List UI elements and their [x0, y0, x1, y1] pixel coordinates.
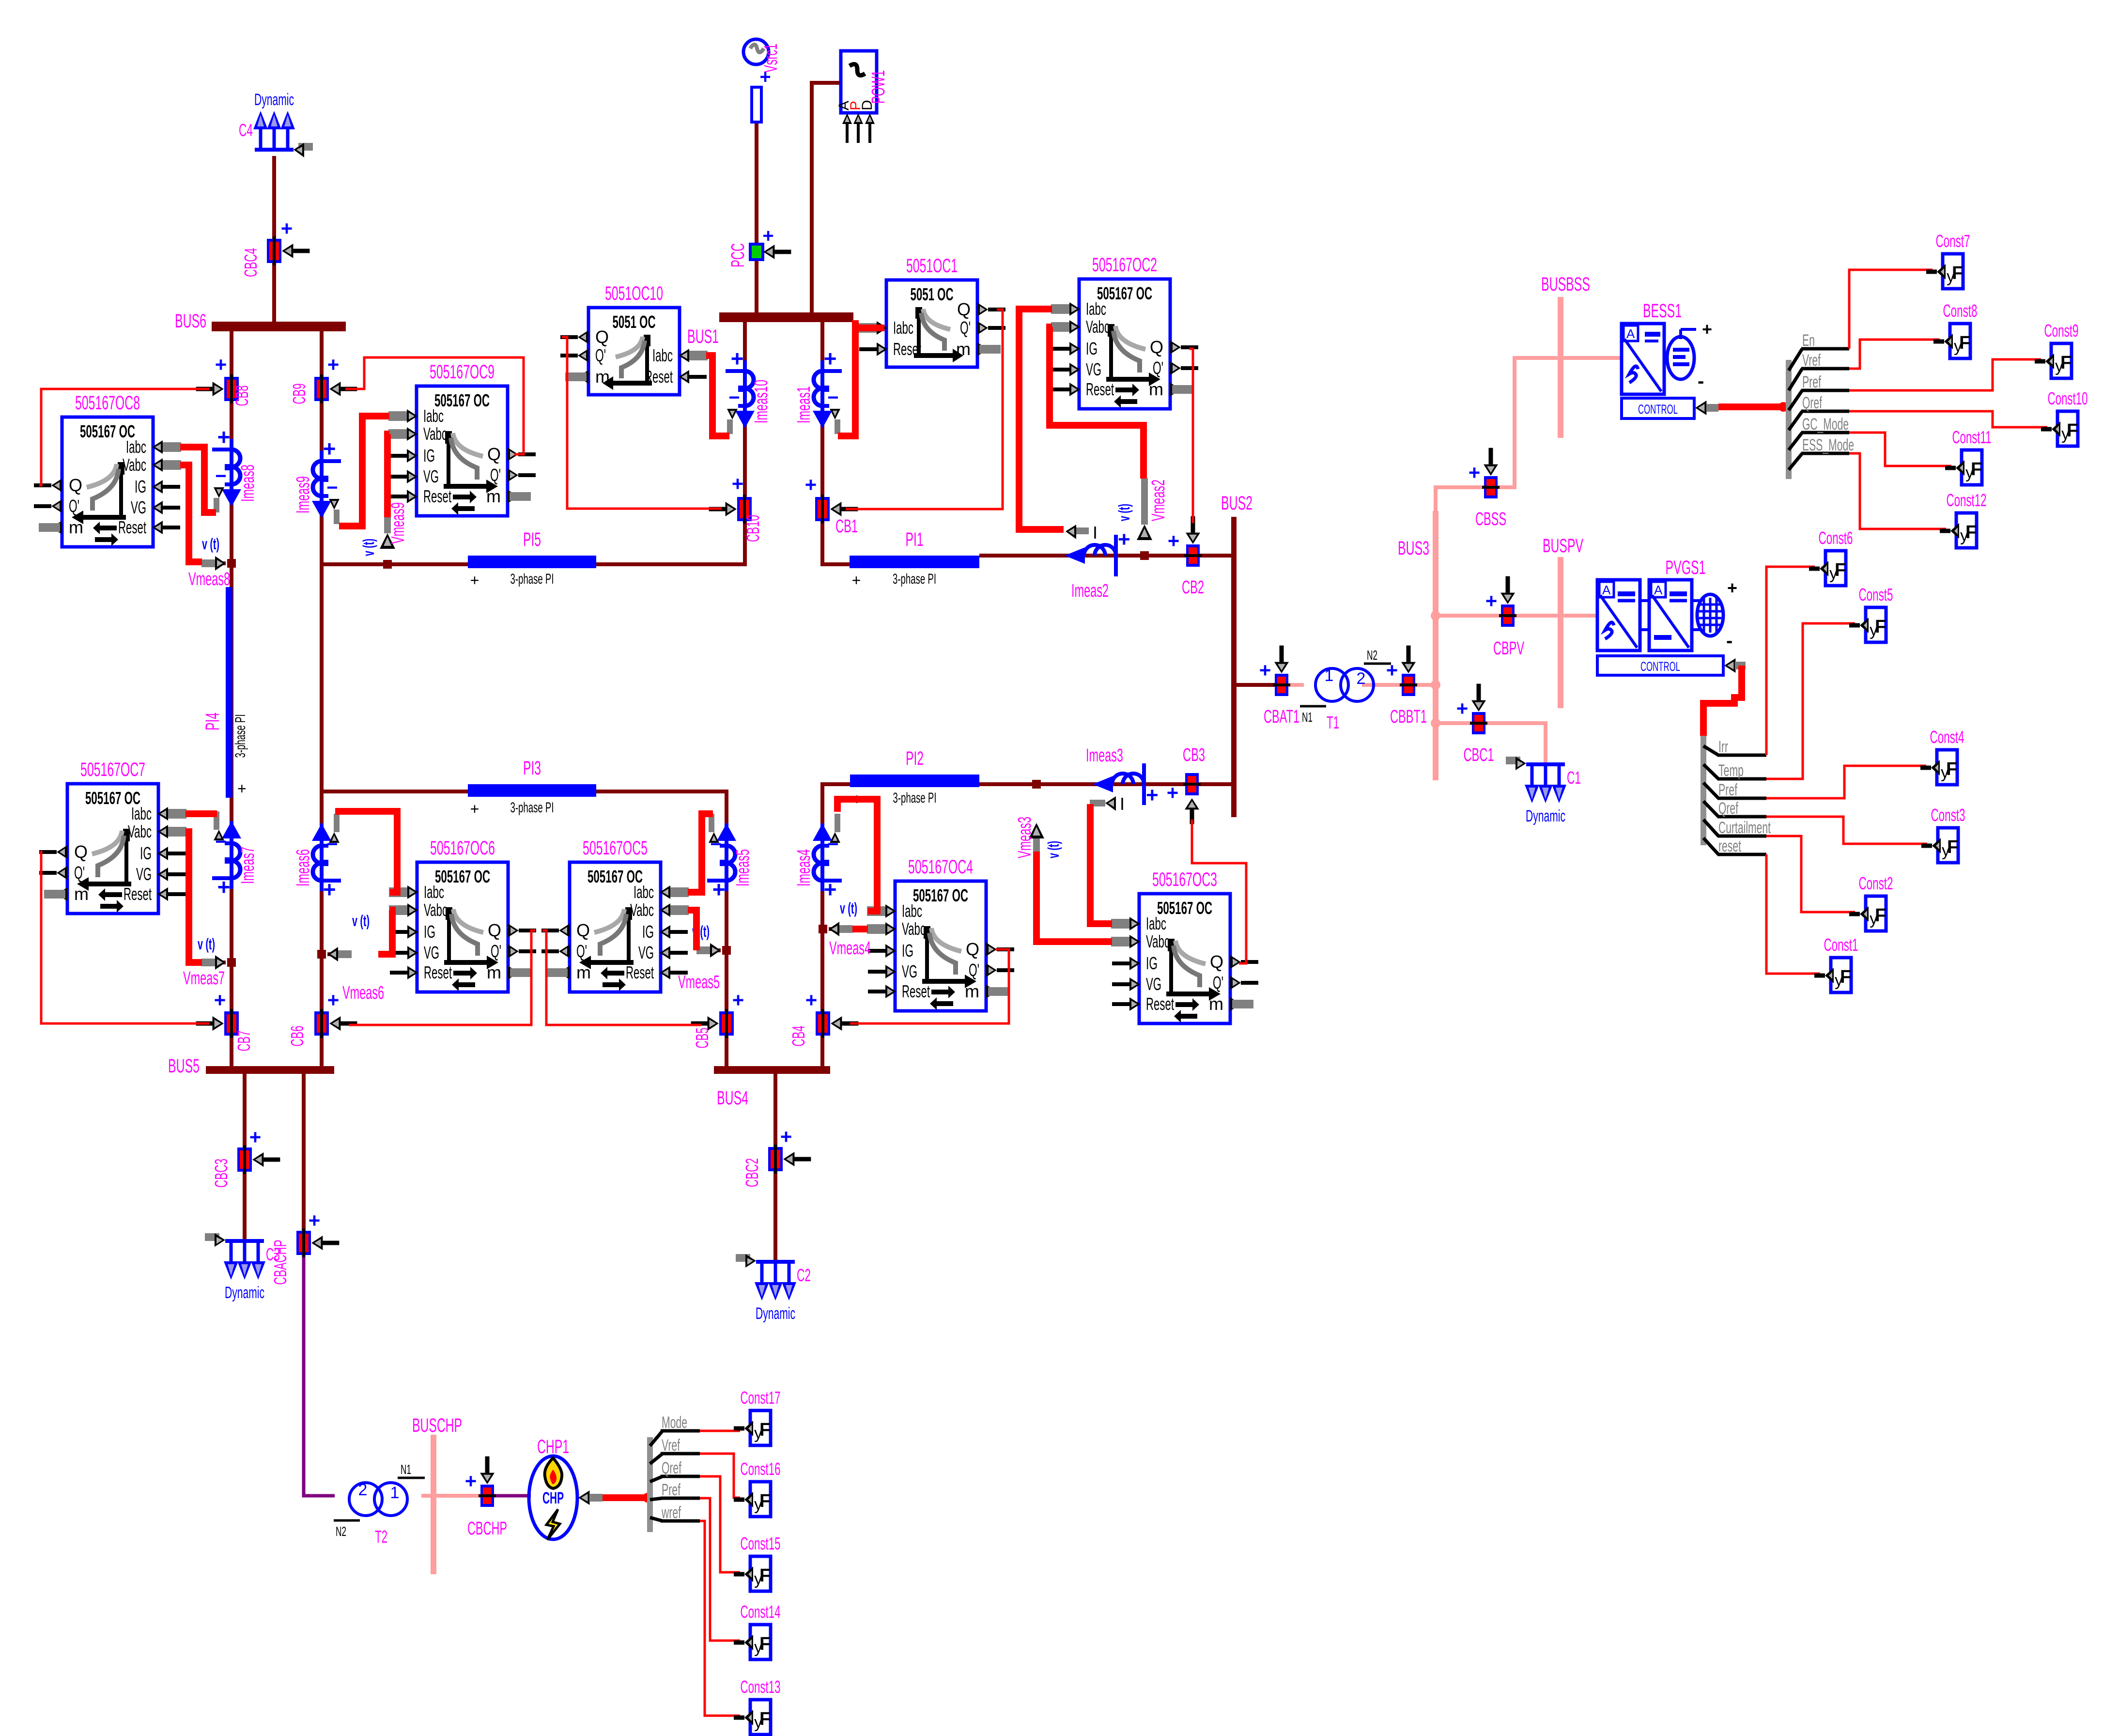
svg-text:Dynamic: Dynamic: [1526, 807, 1565, 825]
svg-text:Imeas1: Imeas1: [794, 386, 814, 423]
breaker CBSS: [1469, 448, 1506, 529]
svg-text:Reset: Reset: [1146, 994, 1174, 1014]
wire En to Const7: [1849, 270, 1933, 349]
bus BUSBSS: [1541, 274, 1590, 438]
svg-text:F: F: [1835, 560, 1846, 580]
overcurrent relay 505167OC7: [39, 759, 186, 914]
wire OC4 Q to CB4: [850, 949, 1009, 1023]
svg-text:CB5: CB5: [692, 1028, 712, 1049]
svg-text:Const6: Const6: [1819, 528, 1853, 548]
constant Const6: [1809, 528, 1853, 586]
svg-text:CBBT1: CBBT1: [1390, 707, 1427, 727]
svg-text:wref: wref: [661, 1503, 681, 1522]
constant Const3: [1921, 805, 1965, 863]
constant Const16: [734, 1459, 781, 1517]
svg-text:Const17: Const17: [741, 1388, 781, 1408]
svg-text:F: F: [759, 1420, 771, 1440]
wire CBAT1 to T1: [1289, 683, 1304, 687]
wire BESS CONTROL to signal fan: [1718, 403, 1786, 410]
svg-text:N1: N1: [1302, 710, 1313, 725]
svg-text:CB7: CB7: [234, 1031, 254, 1052]
svg-text:A: A: [1626, 326, 1635, 341]
bus BUS1: [687, 312, 853, 347]
wire PI1 to BUS2 via Imeas2 Vmeas2 CB2: [979, 554, 1231, 558]
overcurrent relay 505167OC5: [541, 837, 689, 992]
svg-text:v (t): v (t): [202, 535, 219, 553]
svg-text:Reset: Reset: [902, 981, 930, 1001]
constant Const1: [1814, 935, 1858, 992]
svg-text:PI3: PI3: [523, 758, 541, 779]
svg-text:Q: Q: [488, 920, 501, 940]
svg-text:Iabc: Iabc: [634, 882, 654, 902]
wire OC2 Q to CB2: [1189, 349, 1193, 523]
wire OC3 Vabc to Vmeas3: [1036, 852, 1112, 942]
svg-text:Const14: Const14: [741, 1602, 781, 1622]
wire BUS1 to CB1 to PI1: [822, 320, 850, 564]
svg-text:Q': Q': [1213, 973, 1223, 992]
svg-text:CBSS: CBSS: [1475, 509, 1506, 529]
wire Qref to Const10: [1849, 411, 2047, 427]
svg-text:VG: VG: [1086, 359, 1101, 379]
svg-text:F: F: [1875, 617, 1886, 637]
wire Vmeas9 to OC9 Vabc: [387, 434, 389, 517]
svg-text:CB4: CB4: [789, 1026, 808, 1047]
svg-text:C2: C2: [797, 1265, 811, 1285]
wire OC4 Vabc from Vmeas4: [852, 926, 868, 932]
svg-text:CONTROL: CONTROL: [1638, 402, 1678, 417]
breaker CBC1: [1456, 684, 1494, 765]
wire CBCHP to CHP1 (purple): [493, 1494, 531, 1498]
breaker CBPV: [1485, 576, 1525, 659]
svg-text:Reset: Reset: [1086, 379, 1114, 399]
svg-text:CHP1: CHP1: [537, 1436, 569, 1457]
svg-text:BESS1: BESS1: [1643, 300, 1682, 322]
svg-text:IG: IG: [642, 922, 654, 942]
svg-text:3-phase PI: 3-phase PI: [232, 714, 248, 758]
overcurrent relay 505167OC8: [34, 392, 181, 547]
svg-text:v (t): v (t): [198, 935, 215, 953]
breaker CB9: [289, 353, 357, 404]
current measurement Imeas5: [707, 814, 753, 902]
svg-text:-: -: [1698, 371, 1704, 392]
overcurrent relay 505167OC4: [867, 856, 1014, 1011]
svg-text:Iabc: Iabc: [424, 882, 444, 902]
svg-text:CB6: CB6: [287, 1026, 307, 1047]
wire BUS5 to CBC3 to C3 load: [243, 1074, 247, 1241]
svg-text:+: +: [470, 800, 479, 818]
wire PI3 to BUS4 via Imeas5 Vmeas5 CB5: [596, 791, 727, 1068]
CHP generator CHP1: [529, 1436, 603, 1540]
svg-text:PCC: PCC: [728, 243, 748, 267]
svg-text:POW1: POW1: [868, 70, 889, 104]
svg-text:F: F: [1952, 263, 1963, 283]
signal connector PV inputs: [1701, 736, 1771, 855]
breaker CBAT1: [1259, 646, 1299, 727]
svg-text:Iabc: Iabc: [1146, 914, 1166, 933]
wire Imeas10 to OC10 Iabc: [706, 356, 729, 436]
overcurrent relay 505167OC6: [389, 837, 536, 992]
svg-text:v (t): v (t): [840, 899, 857, 917]
svg-text:N2: N2: [336, 1524, 346, 1539]
svg-text:+: +: [327, 353, 340, 376]
svg-text:CBC2: CBC2: [742, 1158, 762, 1187]
svg-text:+: +: [1167, 781, 1179, 804]
wire C4 load to BUS6 via CBC4: [272, 156, 276, 324]
svg-text:Reset: Reset: [118, 517, 146, 537]
svg-text:Q': Q': [576, 941, 587, 961]
svg-text:5051OC1: 5051OC1: [906, 255, 958, 277]
svg-text:Const5: Const5: [1859, 585, 1893, 604]
wire BUSBSS to BESS1: [1563, 356, 1622, 360]
wire Temp to Const5: [1766, 623, 1855, 779]
svg-text:reset: reset: [1718, 837, 1741, 855]
svg-text:Q: Q: [69, 475, 82, 495]
wire OC6 Q to CB6: [349, 930, 535, 1025]
constant Const7: [1926, 231, 1970, 289]
svg-text:+: +: [1118, 527, 1130, 551]
constant Const15: [734, 1534, 781, 1591]
voltage measurement Vmeas7: [183, 935, 236, 989]
svg-text:+: +: [762, 225, 773, 247]
svg-text:Vref: Vref: [1802, 351, 1821, 370]
svg-text:VG: VG: [136, 864, 152, 884]
wire ESS_Mode to Const12: [1849, 453, 1946, 529]
wire Pref to Const14: [700, 1498, 740, 1641]
wire Imeas8 to OC8 Iabc: [180, 447, 216, 512]
wire T1 to CBBT1: [1362, 683, 1402, 687]
wire Mode to Const17: [700, 1430, 740, 1432]
svg-text:+: +: [214, 989, 226, 1011]
svg-text:Vabc: Vabc: [128, 821, 152, 841]
svg-text:CBC1: CBC1: [1464, 745, 1494, 765]
breaker CBC2: [742, 1125, 811, 1187]
svg-text:v (t): v (t): [1115, 504, 1133, 521]
svg-text:PI4: PI4: [202, 713, 223, 730]
svg-text:F: F: [759, 1709, 771, 1729]
wire OC3 Iabc to Imeas3 I pin: [1090, 804, 1112, 924]
svg-text:BUS5: BUS5: [168, 1055, 200, 1077]
overcurrent relay 505167OC3: [1111, 869, 1258, 1023]
svg-text:Const4: Const4: [1930, 727, 1964, 747]
svg-text:CB1: CB1: [835, 516, 858, 537]
wire BUS1 to CB10 to PI5: [596, 320, 745, 564]
constant Const11: [1945, 427, 1992, 485]
svg-text:Const1: Const1: [1824, 935, 1858, 955]
svg-text:F: F: [2067, 420, 2078, 441]
svg-text:Q: Q: [966, 939, 979, 959]
svg-text:Temp: Temp: [1718, 761, 1744, 780]
svg-text:+: +: [281, 217, 293, 240]
svg-text:Dynamic: Dynamic: [756, 1304, 795, 1323]
svg-text:VG: VG: [902, 961, 917, 981]
svg-text:BUS6: BUS6: [175, 310, 206, 332]
constant Const14: [734, 1602, 781, 1659]
svg-text:F: F: [759, 1565, 771, 1586]
svg-text:1: 1: [1325, 666, 1334, 685]
wire BUS3 to CBPV to BUSPV to PVGS1: [1438, 614, 1597, 618]
svg-text:505167OC5: 505167OC5: [583, 837, 648, 859]
PI section PI5: [468, 529, 596, 589]
svg-text:+: +: [323, 436, 336, 461]
breaker CBACHP: [270, 1209, 339, 1285]
wire Vmeas8 to OC8 Vabc: [180, 465, 202, 562]
wire Pref to Const9: [1849, 359, 2041, 390]
svg-text:Vabc: Vabc: [630, 900, 654, 920]
svg-text:Q: Q: [957, 299, 971, 319]
svg-text:505167OC6: 505167OC6: [430, 837, 495, 859]
svg-text:Pref: Pref: [1802, 373, 1821, 391]
PI section PI1: [850, 529, 979, 589]
svg-text:BUS4: BUS4: [717, 1087, 748, 1109]
wire PI2 left to BUS4 via Imeas4 Vmeas4 CB4: [822, 784, 850, 1068]
breaker CB1: [805, 473, 858, 537]
svg-text:CB3: CB3: [1183, 745, 1205, 765]
svg-text:+: +: [1485, 589, 1498, 612]
svg-text:3-phase PI: 3-phase PI: [510, 571, 554, 587]
transformer T2: [334, 1462, 425, 1547]
wire BUS5 to CBACHP: [302, 1074, 306, 1233]
wire CBACHP to T2 (purple): [304, 1253, 335, 1496]
wire wref to Const13: [700, 1521, 740, 1716]
signal connector CHP inputs: [647, 1413, 700, 1532]
wire BUS4 to CBC2 to C2 load: [773, 1074, 777, 1262]
wire Imeas9 to OC9 Iabc: [339, 416, 389, 526]
svg-text:F: F: [1959, 333, 1970, 353]
wire Vsrc1 to BUS1: [755, 121, 758, 314]
svg-text:Imeas6: Imeas6: [293, 849, 313, 886]
svg-text:+: +: [327, 989, 340, 1011]
svg-text:Q': Q': [74, 863, 85, 883]
svg-text:GC_Mode: GC_Mode: [1802, 415, 1849, 434]
wire OC7 Vabc to Vmeas7: [186, 832, 202, 962]
svg-text:+: +: [805, 473, 817, 496]
svg-text:2: 2: [358, 1481, 368, 1499]
svg-text:Q: Q: [487, 444, 501, 464]
svg-text:Const9: Const9: [2044, 321, 2079, 341]
svg-text:Iabc: Iabc: [131, 804, 152, 823]
breaker CB4: [789, 989, 858, 1047]
svg-text:Qref: Qref: [1718, 799, 1738, 818]
breaker CB6: [287, 989, 357, 1047]
svg-text:ESS_Mode: ESS_Mode: [1802, 436, 1854, 454]
svg-text:Vmeas9: Vmeas9: [388, 502, 408, 544]
dynamic load C1: [1506, 757, 1581, 825]
svg-text:PVGS1: PVGS1: [1666, 557, 1706, 578]
svg-text:BUS3: BUS3: [1398, 538, 1429, 559]
svg-text:Imeas7: Imeas7: [238, 847, 258, 884]
wire OC5 Iabc to Imeas5 pin: [688, 814, 713, 892]
svg-text:F: F: [1971, 459, 1982, 480]
current measurement Imeas9: [293, 436, 341, 524]
wire reset to Const1: [1766, 854, 1820, 974]
svg-text:505167OC3: 505167OC3: [1152, 869, 1217, 890]
junction dots on BUS3: [1431, 611, 1440, 620]
svg-text:Q: Q: [1150, 337, 1163, 357]
wire Curtailment to Const2: [1766, 836, 1855, 912]
svg-text:Qref: Qref: [1802, 394, 1822, 412]
svg-text:Iabc: Iabc: [1086, 299, 1106, 319]
svg-text:I: I: [1093, 523, 1098, 542]
svg-text:Reset: Reset: [626, 962, 654, 982]
svg-text:2: 2: [1357, 669, 1366, 688]
wire PI3 tap at Imeas6 feeder: [322, 790, 468, 793]
svg-text:+: +: [731, 346, 744, 371]
svg-text:F: F: [2060, 353, 2072, 373]
svg-text:−: −: [326, 477, 338, 498]
svg-text:C3: C3: [266, 1244, 280, 1264]
breaker CBCHP: [465, 1457, 507, 1539]
svg-text:1: 1: [390, 1484, 400, 1502]
PV generator PVGS1: [1597, 557, 1746, 675]
svg-text:VG: VG: [131, 497, 146, 517]
svg-text:BUS2: BUS2: [1221, 493, 1253, 514]
bus BUS3: [1398, 511, 1438, 780]
breaker CBC4: [241, 217, 309, 277]
PCC node monitor: [728, 225, 791, 267]
battery storage BESS1: [1622, 300, 1718, 418]
svg-text:Q': Q': [595, 345, 606, 365]
overcurrent relay 5051OC10: [560, 283, 708, 395]
svg-text:505167OC8: 505167OC8: [75, 392, 140, 414]
svg-text:505167OC9: 505167OC9: [430, 361, 495, 383]
svg-text:505167OC4: 505167OC4: [908, 856, 973, 878]
svg-text:IG: IG: [902, 941, 913, 961]
wire BUS6 to BUS5 feeder via CB8 Imeas8 PI4 Imeas7 CB7: [230, 329, 233, 1068]
svg-text:+: +: [237, 780, 247, 797]
wire OC7 Iabc to Imeas7 pin: [186, 810, 217, 817]
svg-text:+: +: [323, 877, 336, 902]
svg-text:IG: IG: [1086, 339, 1098, 358]
svg-text:Vabc: Vabc: [1086, 317, 1110, 337]
svg-text:IG: IG: [423, 446, 435, 465]
wire OC4 Iabc to Imeas4 pin: [837, 799, 877, 911]
svg-text:VG: VG: [423, 466, 439, 486]
wire OC10 Q to CB10: [562, 337, 722, 509]
svg-text:5051 OC: 5051 OC: [911, 284, 954, 304]
svg-text:+: +: [732, 472, 744, 495]
svg-text:F: F: [1965, 522, 1977, 542]
svg-text:Const16: Const16: [741, 1459, 781, 1479]
svg-text:PI1: PI1: [906, 529, 924, 550]
svg-text:+: +: [824, 877, 837, 902]
svg-text:v (t): v (t): [352, 912, 370, 930]
svg-text:PI2: PI2: [906, 748, 924, 769]
wire Pref2 to Const4: [1766, 766, 1926, 798]
breaker CB10: [709, 472, 763, 542]
svg-text:Imeas10: Imeas10: [751, 380, 772, 423]
current measurement Imeas3: [1086, 745, 1159, 814]
current measurement Imeas4: [794, 814, 842, 902]
svg-text:+: +: [852, 572, 861, 589]
svg-text:Vmeas5: Vmeas5: [678, 972, 720, 992]
svg-text:Const2: Const2: [1859, 873, 1893, 893]
svg-text:CB10: CB10: [743, 515, 763, 542]
svg-text:Imeas3: Imeas3: [1086, 745, 1123, 766]
svg-text:5051 OC: 5051 OC: [613, 312, 656, 332]
svg-text:Iabc: Iabc: [652, 345, 673, 365]
wire PI2 right to BUS2 via Vmeas3 Imeas3 CB3: [979, 782, 1231, 786]
breaker CB2: [1168, 516, 1204, 598]
svg-text:Vmeas8: Vmeas8: [188, 569, 230, 589]
svg-text:-: -: [1726, 630, 1732, 651]
svg-text:Irr: Irr: [1718, 738, 1728, 756]
breaker CB8: [196, 353, 252, 406]
svg-text:En: En: [1802, 331, 1815, 350]
svg-text:+: +: [1727, 578, 1737, 598]
wire OC2 Iabc to Imeas2 I pin: [1019, 309, 1064, 529]
svg-text:Dynamic: Dynamic: [254, 91, 294, 109]
constant Const2: [1849, 873, 1893, 931]
svg-text:Vabc: Vabc: [1146, 931, 1170, 951]
svg-text:+: +: [712, 877, 726, 902]
svg-text:BUS1: BUS1: [687, 326, 719, 347]
svg-text:+: +: [805, 989, 818, 1011]
signal connector ESS inputs: [1786, 331, 1854, 479]
svg-text:Imeas2: Imeas2: [1071, 581, 1109, 601]
svg-text:PI5: PI5: [523, 529, 541, 550]
breaker CB3: [1167, 745, 1205, 804]
current measurement Imeas8: [212, 424, 258, 512]
wire Vref to Const16: [700, 1454, 740, 1498]
voltage measurement Vmeas9: [360, 502, 408, 569]
voltage measurement Vmeas4: [819, 899, 871, 959]
wire Qref to Const15: [700, 1476, 740, 1572]
constant Const5: [1849, 585, 1893, 642]
svg-text:CB8: CB8: [232, 386, 252, 406]
svg-text:Reset: Reset: [124, 884, 152, 904]
overcurrent relay 505167OC9: [388, 361, 536, 516]
bus BUSCHP: [412, 1415, 462, 1574]
bus BUS2: [1221, 493, 1253, 817]
breaker CBBT1: [1386, 646, 1427, 727]
svg-text:Vabc: Vabc: [902, 919, 926, 939]
svg-text:Vmeas7: Vmeas7: [183, 968, 225, 989]
svg-text:Const15: Const15: [741, 1534, 781, 1553]
current measurement Imeas2: [1065, 523, 1130, 601]
svg-text:N2: N2: [1367, 648, 1377, 663]
svg-text:Q': Q': [490, 465, 501, 485]
voltage measurement Vmeas2: [1115, 478, 1169, 560]
wire OC5 Vabc to Vmeas5: [688, 910, 696, 950]
svg-text:Const12: Const12: [1947, 490, 1987, 510]
svg-text:Q: Q: [595, 327, 609, 347]
svg-text:Vref: Vref: [662, 1436, 680, 1455]
svg-text:+: +: [217, 424, 231, 449]
svg-text:F: F: [1840, 967, 1851, 987]
constant Const13: [734, 1677, 781, 1735]
svg-text:CBCHP: CBCHP: [467, 1519, 507, 1539]
svg-text:Const11: Const11: [1952, 427, 1992, 447]
PI section PI4: [202, 587, 248, 798]
wire PI5 tap at Imeas9 feeder: [322, 562, 468, 566]
svg-text:v (t): v (t): [1045, 841, 1062, 858]
svg-text:Const8: Const8: [1943, 301, 1978, 321]
svg-text:Imeas4: Imeas4: [794, 849, 814, 886]
svg-text:CHP: CHP: [542, 1489, 564, 1507]
wire OC9 Q to CB9: [345, 357, 524, 454]
wire CHP1 to signal fan: [603, 1494, 649, 1501]
svg-text:C4: C4: [239, 120, 253, 140]
svg-text:Q': Q': [969, 960, 979, 980]
wire OC3 Q to CB3: [1192, 820, 1246, 963]
wire BUS3 top to CBSS to BUSBSS: [1436, 358, 1558, 511]
svg-text:Mode: Mode: [662, 1413, 687, 1432]
svg-text:I: I: [1120, 794, 1125, 814]
wire OC2 Vabc to Vmeas2: [1050, 327, 1144, 479]
svg-text:Imeas8: Imeas8: [238, 465, 258, 502]
wire OC5 Q to CB5: [542, 930, 701, 1025]
svg-text:+: +: [759, 66, 771, 88]
